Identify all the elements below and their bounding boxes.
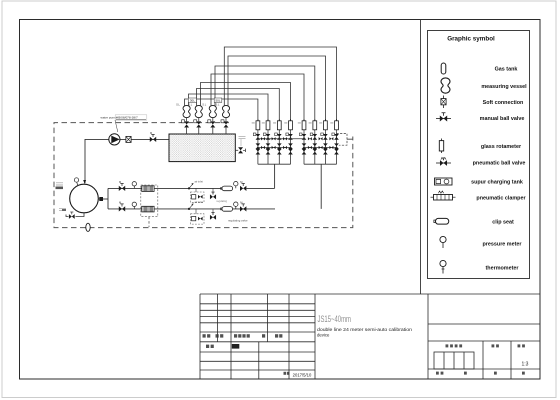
svg-text:HB/08/078-38/7: HB/08/078-38/7 bbox=[116, 116, 138, 120]
svg-text:Gas tank: Gas tank bbox=[495, 67, 518, 73]
svg-text:M: M bbox=[119, 201, 121, 205]
svg-text:Graphic symbol: Graphic symbol bbox=[447, 36, 495, 43]
svg-text:M: M bbox=[119, 180, 121, 184]
svg-text:1:3: 1:3 bbox=[522, 362, 529, 368]
svg-text:water pump: water pump bbox=[101, 116, 117, 120]
svg-text:Soft connection: Soft connection bbox=[483, 100, 524, 106]
svg-text:device: device bbox=[317, 332, 330, 337]
svg-text:JS15~40mm: JS15~40mm bbox=[318, 314, 352, 324]
svg-text:S.L: S.L bbox=[216, 103, 220, 107]
svg-text:supur charging tank: supur charging tank bbox=[471, 180, 523, 186]
svg-text:S.L: S.L bbox=[188, 103, 192, 107]
svg-text:thermometer: thermometer bbox=[486, 266, 520, 272]
svg-text:regulating: regulating bbox=[217, 200, 228, 203]
svg-text:M: M bbox=[240, 200, 242, 204]
svg-text:pneumatic ball valve: pneumatic ball valve bbox=[473, 161, 526, 167]
svg-text:S.L: S.L bbox=[176, 103, 180, 107]
svg-text:M: M bbox=[150, 131, 152, 135]
svg-text:50L: 50L bbox=[215, 99, 220, 103]
svg-text:pressure meter: pressure meter bbox=[483, 242, 523, 248]
svg-text:2017/5/10: 2017/5/10 bbox=[293, 372, 312, 377]
svg-text:regulating valve: regulating valve bbox=[228, 219, 248, 223]
svg-text:S.L: S.L bbox=[202, 103, 206, 107]
svg-text:30L: 30L bbox=[190, 99, 195, 103]
svg-text:glass rotameter: glass rotameter bbox=[481, 144, 522, 150]
svg-text:M: M bbox=[240, 180, 242, 184]
svg-text:measuring vessel: measuring vessel bbox=[481, 84, 527, 90]
svg-text:air inlet: air inlet bbox=[195, 180, 204, 184]
svg-text:double line 24 meter semi-aut: double line 24 meter semi-auto calibrati… bbox=[317, 327, 413, 332]
svg-text:pneumatic clamper: pneumatic clamper bbox=[476, 196, 526, 202]
svg-text:clip seat: clip seat bbox=[492, 220, 514, 226]
svg-text:manual ball valve: manual ball valve bbox=[480, 116, 525, 122]
